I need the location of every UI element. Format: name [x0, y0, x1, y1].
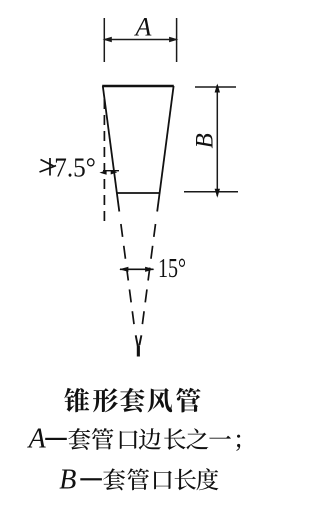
angle 15 dimension line [120, 268, 154, 270]
title: conical sleeve duct [64, 388, 200, 413]
caption line B CJK text [103, 468, 219, 490]
caption line A dash [45, 438, 67, 440]
extension line top of dimension B [195, 86, 236, 88]
right converging dashed line [142, 224, 156, 331]
extension line bottom of dimension B [184, 191, 238, 193]
cone top edge [102, 85, 174, 88]
svg-text:B: B [192, 133, 219, 148]
caption line A CJK text [68, 428, 240, 451]
cone right slant edge [157, 86, 173, 212]
arrowhead right of dimension A [169, 37, 178, 42]
angle 7.5 tie line [103, 170, 119, 172]
angle 15 left arrowhead [119, 267, 128, 272]
svg-text:7.5°: 7.5° [54, 151, 96, 182]
angle 15 right arrowhead [145, 267, 154, 272]
cone left slant edge [103, 86, 120, 212]
cone bottom edge [117, 192, 160, 194]
svg-text:A: A [27, 424, 47, 455]
vertical dashed reference line [103, 99, 105, 221]
angle 7.5 left arrowhead [99, 170, 106, 175]
apex left dash [136, 335, 138, 346]
svg-text:A: A [134, 12, 152, 41]
svg-text:15°: 15° [158, 253, 186, 283]
dimension line B [216, 85, 218, 196]
arrowhead bottom of dimension B [215, 189, 220, 198]
not-greater-than symbol [40, 158, 57, 176]
extension line right of dimension A [176, 18, 178, 62]
caption line B dash [80, 478, 102, 480]
arrowhead top of dimension B [215, 84, 220, 93]
svg-text:B: B [59, 465, 76, 496]
left converging dashed line [121, 224, 135, 331]
arrowhead left of dimension A [103, 37, 112, 42]
angle 7.5 right arrowhead [111, 170, 118, 175]
apex mark [137, 345, 140, 356]
dimension line A [104, 39, 176, 41]
apex right dash [139, 335, 141, 345]
extension line left of dimension A [103, 18, 105, 62]
